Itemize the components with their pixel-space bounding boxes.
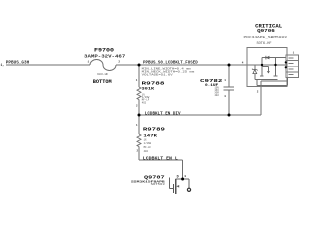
svg-text:2: 2 [257,91,259,94]
svg-text:1: 1 [136,79,138,82]
svg-text:402: 402 [215,94,220,97]
svg-text:SOT563: SOT563 [151,183,166,186]
svg-text:2: 2 [137,150,139,153]
svg-text:1/16W: 1/16W [144,142,152,145]
svg-text:1: 1 [136,124,138,127]
svg-text:F9700: F9700 [94,48,114,54]
svg-text:3: 3 [224,95,226,98]
svg-text:2: 2 [118,60,120,63]
svg-text:R9788: R9788 [142,81,165,87]
svg-text:1: 1 [293,52,295,55]
svg-text:Q9706: Q9706 [257,28,275,34]
svg-text:LCDBKLT_EN_DIV: LCDBKLT_EN_DIV [145,111,181,117]
svg-text:1%: 1% [144,138,147,141]
svg-text:402: 402 [142,101,147,104]
svg-text:2: 2 [136,104,138,107]
svg-text:PPBUS_G3H: PPBUS_G3H [6,60,30,66]
svg-text:1: 1 [224,79,226,82]
svg-text:MF-LF: MF-LF [144,146,152,149]
svg-text:1,: 1, [1,63,5,67]
svg-text:4: 4 [242,62,244,65]
svg-text:301K: 301K [142,87,156,91]
svg-text:1: 1 [88,60,90,63]
svg-text:3: 3 [184,174,186,178]
svg-text:SOT6-HF: SOT6-HF [257,41,272,45]
svg-text:D: D [177,175,179,179]
svg-text:BOTTOM: BOTTOM [93,79,112,85]
svg-text:3AMP-32V-467: 3AMP-32V-467 [84,56,126,60]
svg-text:402: 402 [144,150,149,153]
svg-text:603-HF: 603-HF [97,73,108,76]
svg-text:VOLTAGE=51.6V: VOLTAGE=51.6V [142,74,174,77]
svg-text:R9789: R9789 [143,127,165,133]
svg-text:LCDBKLT_EN_L: LCDBKLT_EN_L [143,156,178,162]
svg-text:PDC34APE_SBM5003: PDC34APE_SBM5003 [244,36,288,39]
svg-text:PPBUS_S0_LCDBKLT_FUSED: PPBUS_S0_LCDBKLT_FUSED [143,59,198,65]
